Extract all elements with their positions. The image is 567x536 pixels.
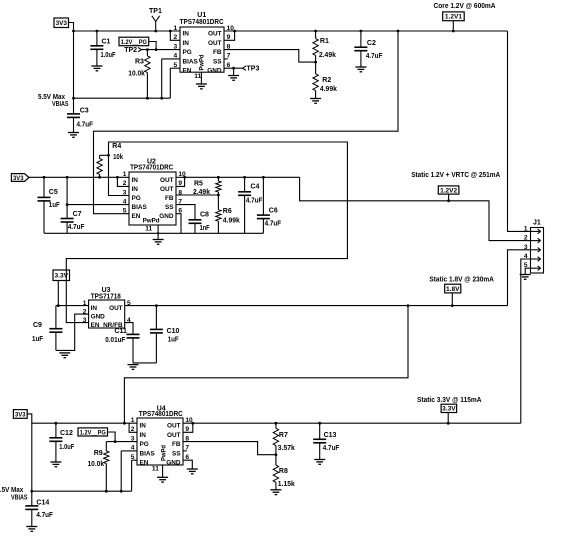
svg-text:SS: SS [172, 450, 181, 457]
svg-text:1: 1 [83, 300, 87, 307]
svg-text:4: 4 [174, 53, 178, 60]
svg-text:SS: SS [213, 58, 222, 65]
ground (U1 GND pin) [228, 76, 239, 81]
svg-text:EN: EN [132, 213, 141, 220]
svg-text:0.01uF: 0.01uF [105, 337, 126, 344]
capacitor C6 [257, 177, 282, 233]
U2 pad pin 11 [145, 225, 159, 240]
svg-text:11: 11 [145, 226, 152, 233]
resistor R5 [193, 177, 221, 196]
svg-text:3.3V: 3.3V [55, 273, 69, 280]
resistor R9 [88, 442, 110, 492]
svg-text:R9: R9 [94, 450, 103, 457]
ground (C14) [26, 527, 37, 532]
wire 3V3 row (U2 IN) [29, 176, 129, 179]
capacitor C3 [67, 98, 94, 132]
svg-text:IN: IN [132, 177, 139, 184]
wire 3V3 to U4 IN row [27, 414, 137, 425]
svg-text:C12: C12 [60, 430, 73, 437]
svg-text:C13: C13 [324, 432, 337, 439]
svg-text:C10: C10 [167, 328, 180, 335]
op-amp U1 TPS74801DRC body [180, 12, 224, 72]
J1 pin arrows and numbers [524, 225, 541, 270]
svg-text:TPS71718: TPS71718 [91, 293, 121, 300]
op-amp U3 TPS71718 body [89, 287, 125, 328]
wire U2 OUT to 1.2V2 row [300, 177, 531, 240]
svg-text:TPS74801DRC: TPS74801DRC [139, 411, 183, 418]
svg-text:1uF: 1uF [168, 337, 180, 344]
svg-text:BIAS: BIAS [140, 450, 156, 457]
wire U1 OUT row [224, 30, 508, 33]
svg-text:PwPd: PwPd [199, 54, 206, 70]
svg-text:R5: R5 [194, 180, 203, 187]
svg-text:2.49k: 2.49k [319, 52, 336, 59]
svg-text:C9: C9 [33, 322, 42, 329]
net label 3V3 (bottom) [13, 410, 27, 419]
svg-text:3: 3 [123, 189, 127, 196]
svg-text:1.0uF: 1.0uF [59, 444, 75, 451]
ground (C1) [91, 66, 102, 71]
svg-text:4.99k: 4.99k [320, 86, 337, 93]
ground (C13) [314, 460, 325, 465]
ground (U1 pad) [196, 84, 207, 89]
svg-text:GND: GND [166, 460, 181, 467]
wire U2 pin1-pin2 tie [117, 177, 129, 186]
svg-text:2: 2 [174, 34, 178, 41]
svg-text:3V3: 3V3 [56, 20, 68, 27]
test point TP3 [243, 66, 260, 73]
svg-text:3V3: 3V3 [15, 411, 26, 418]
op-amp U2 TPS74701DRC body [129, 158, 176, 225]
svg-text:1.2V__PG: 1.2V__PG [80, 429, 106, 436]
wire J1 pin3 from 1.8V [508, 250, 531, 306]
wire U3 NR/FB to C11 [125, 323, 133, 335]
svg-text:4: 4 [123, 198, 127, 205]
wire U4 EN [132, 460, 137, 491]
net label box 1.8V [445, 284, 461, 305]
svg-text:R3: R3 [135, 58, 144, 65]
test point TP2 [124, 47, 141, 54]
net label box 3.3V (U3) [53, 270, 70, 307]
capacitor C5 [38, 177, 61, 233]
wire VBIAS row (top) [72, 97, 170, 100]
wire U1 EN [170, 68, 180, 98]
svg-text:5: 5 [131, 454, 135, 461]
wire VBIAS vertical (bottom) [31, 423, 33, 491]
svg-text:OUT: OUT [109, 305, 123, 312]
net label box 1.2V1 [443, 12, 465, 31]
resistor R4 [97, 143, 123, 179]
svg-text:Static 3.3V @ 115mA: Static 3.3V @ 115mA [417, 397, 482, 404]
net label Static 1.8V [429, 277, 494, 284]
svg-text:C2: C2 [367, 40, 376, 47]
svg-text:10.0k: 10.0k [128, 70, 145, 77]
svg-text:C1: C1 [102, 39, 111, 46]
svg-text:C4: C4 [250, 184, 259, 191]
wire 1.8V branch to U4 [123, 306, 408, 425]
svg-text:IN: IN [140, 432, 147, 439]
capacitor C2 [354, 31, 383, 67]
wire U2 FB row [176, 194, 220, 197]
svg-text:2.49k: 2.49k [193, 189, 210, 196]
resistor R3 [128, 48, 150, 98]
ground (U4 GND pin) [187, 469, 198, 474]
svg-text:4.7uF: 4.7uF [366, 53, 383, 60]
svg-text:C8: C8 [200, 212, 209, 219]
wire U4 OUT row [183, 422, 521, 425]
wire U1 GND to TP3 [224, 67, 243, 76]
resistor R2 [313, 62, 337, 98]
svg-text:PwPd: PwPd [161, 445, 168, 461]
svg-text:11: 11 [194, 73, 201, 80]
ground (U4 pad) [157, 477, 168, 482]
U1 pad pin 11 [194, 72, 201, 84]
svg-text:3: 3 [174, 43, 178, 50]
svg-text:1: 1 [123, 171, 127, 178]
svg-text:C5: C5 [49, 189, 58, 196]
text 5.5V Max / VBIAS (top) [38, 94, 69, 108]
U4 pad pin 11 [152, 465, 163, 477]
svg-text:TPS74701DRC: TPS74701DRC [130, 165, 173, 172]
svg-text:R6: R6 [223, 208, 232, 215]
wire 1.2V__PG to PG row [149, 42, 158, 51]
resistor R8 [273, 455, 295, 490]
wire 1.2V__PG to U4 PG row [108, 432, 117, 443]
ground (U3) [59, 353, 70, 358]
wire 1.2V1 to U2 EN [94, 31, 399, 214]
svg-text:EN: EN [91, 322, 100, 329]
svg-text:5: 5 [123, 208, 127, 215]
wire U1 pin9 tie [224, 31, 235, 40]
svg-text:FB: FB [172, 441, 181, 448]
wire 3V3 to U1 IN row [69, 23, 181, 33]
svg-text:3.57k: 3.57k [278, 445, 295, 452]
wire U4 GND pin [183, 460, 192, 469]
svg-text:1: 1 [174, 25, 178, 32]
svg-text:SS: SS [165, 204, 174, 211]
svg-text:OUT: OUT [160, 186, 174, 193]
net label box 1.2V__PG (top) [119, 37, 149, 46]
svg-text:J1: J1 [533, 220, 541, 227]
svg-text:IN: IN [140, 423, 147, 430]
svg-text:FB: FB [165, 195, 174, 202]
net label box 1.2V2 [438, 186, 459, 201]
svg-text:C6: C6 [269, 208, 278, 215]
svg-text:C3: C3 [80, 108, 89, 115]
wire PG row (U1) [141, 49, 180, 51]
svg-text:OUT: OUT [208, 31, 222, 38]
svg-text:2: 2 [131, 426, 135, 433]
resistor R1 [313, 31, 336, 62]
svg-text:11: 11 [152, 466, 159, 473]
ground (R2) [310, 99, 321, 104]
svg-text:5: 5 [174, 62, 178, 69]
test point TP1 [149, 8, 162, 32]
wire VBIAS row (bottom) [30, 490, 131, 493]
svg-text:C11: C11 [115, 328, 128, 335]
svg-text:PG: PG [183, 49, 192, 56]
svg-text:TP3: TP3 [247, 66, 260, 73]
svg-text:4.99k: 4.99k [223, 217, 240, 224]
svg-text:OUT: OUT [167, 432, 181, 439]
svg-text:4.7uF: 4.7uF [265, 220, 282, 227]
capacitor C4 [238, 177, 263, 233]
svg-text:10k: 10k [113, 154, 123, 161]
svg-text:1uF: 1uF [49, 202, 61, 209]
svg-text:1.2V1: 1.2V1 [445, 14, 463, 21]
ground (C12) [50, 462, 61, 467]
wire J1 pin4 from 3.3V [521, 259, 531, 423]
net label Core 1.2V [434, 3, 496, 10]
net label 3V3 (U2) [11, 174, 29, 183]
svg-text:OUT: OUT [160, 177, 174, 184]
ground (J1 pin5) [520, 275, 531, 280]
ground (R8) [270, 490, 281, 495]
wire U2 BIAS [67, 204, 129, 206]
ground (C11/C10) [128, 365, 139, 370]
wire U2 OUT row [176, 176, 300, 179]
wire U2 PG net to U3 EN [66, 142, 347, 323]
svg-text:GND: GND [159, 213, 174, 220]
svg-text:GND: GND [91, 314, 106, 321]
svg-text:TP2: TP2 [124, 47, 137, 54]
svg-text:R4: R4 [112, 143, 121, 150]
wire U2 ground rail [44, 232, 263, 234]
U1 pin names and numbers [174, 25, 235, 75]
U4 pin names and numbers [131, 417, 193, 467]
svg-text:Static 1.8V @ 230mA: Static 1.8V @ 230mA [429, 277, 494, 284]
svg-text:EN: EN [140, 460, 149, 467]
wire U4 pin9 tie [183, 423, 193, 432]
svg-text:4: 4 [131, 445, 135, 452]
svg-text:R2: R2 [322, 77, 331, 84]
wire U4 BIAS [121, 451, 137, 491]
wire U1 FB jog [224, 50, 317, 64]
wire C10/C11 ground row [133, 362, 156, 364]
svg-text:IN: IN [132, 186, 139, 193]
svg-text:5.5V Max: 5.5V Max [0, 487, 23, 494]
net label 3V3 (top) [54, 18, 69, 28]
svg-text:C7: C7 [73, 211, 82, 218]
svg-text:1.2V2: 1.2V2 [440, 187, 458, 194]
wire U3 GND [56, 314, 89, 350]
svg-text:IN: IN [183, 40, 190, 47]
wire U1 pin1-pin2 tie [169, 30, 180, 41]
capacitor C12 [49, 423, 74, 462]
capacitor C13 [313, 423, 340, 459]
ground (U2 pad) [153, 240, 164, 245]
wire U1 BIAS [162, 59, 180, 98]
wire J1 pin5 to ground [525, 268, 530, 274]
svg-text:1.8V: 1.8V [446, 286, 460, 293]
wire VBIAS vertical [73, 31, 75, 98]
U3 pin names and numbers [83, 300, 131, 329]
svg-text:2: 2 [123, 180, 127, 187]
svg-text:R7: R7 [279, 432, 288, 439]
op-amp U4 TPS74801DRC body [137, 405, 183, 465]
ground (C3) [68, 133, 79, 138]
capacitor C10 [150, 304, 180, 363]
resistor R6 [216, 195, 240, 233]
svg-text:Core 1.2V @ 600mA: Core 1.2V @ 600mA [434, 3, 496, 10]
wire U2 SS to C8 [176, 205, 195, 220]
capacitor C9 [32, 306, 62, 351]
svg-text:TPS74801DRC: TPS74801DRC [180, 19, 224, 26]
capacitor C7 [61, 177, 85, 233]
svg-text:4.7uF: 4.7uF [36, 512, 53, 519]
svg-text:R1: R1 [320, 38, 329, 45]
svg-text:PG: PG [132, 195, 141, 202]
text 5.5V Max / VBIAS (bottom) [0, 487, 28, 501]
wire U4 pin1-pin2 tie [129, 423, 137, 432]
wire U1 SS stub [224, 58, 228, 60]
net label box 1.2V__PG (bottom) [78, 428, 108, 436]
svg-text:OUT: OUT [208, 40, 222, 47]
U2 pin names and numbers [123, 171, 186, 224]
svg-text:C14: C14 [36, 500, 49, 507]
wire U2 pin9 tie [176, 177, 185, 186]
svg-text:4.7uF: 4.7uF [68, 224, 85, 231]
svg-text:1.15k: 1.15k [278, 481, 295, 488]
net label box 3.3V (bottom) [441, 404, 457, 423]
svg-text:1uF: 1uF [32, 336, 44, 343]
capacitor C8 [189, 212, 211, 234]
svg-text:1.2V__PG: 1.2V__PG [121, 39, 147, 46]
svg-text:EN: EN [183, 68, 192, 75]
svg-text:TP1: TP1 [149, 8, 162, 15]
wire U4 SS stub [183, 450, 187, 452]
svg-text:BIAS: BIAS [183, 58, 199, 65]
capacitor C1 [90, 30, 116, 66]
svg-text:5.5V Max: 5.5V Max [38, 94, 65, 101]
svg-text:Static 1.2V + VRTC @ 251mA: Static 1.2V + VRTC @ 251mA [411, 172, 500, 179]
svg-text:3: 3 [83, 317, 87, 324]
wire J1 pin1 from 1.2V1 [508, 31, 531, 231]
svg-text:BIAS: BIAS [132, 204, 148, 211]
connector J1 body [531, 220, 544, 274]
svg-text:10.0k: 10.0k [88, 461, 105, 468]
svg-text:3V3: 3V3 [13, 175, 24, 182]
wire U4 PG row [106, 441, 137, 443]
svg-text:FB: FB [213, 49, 222, 56]
svg-text:PwPd: PwPd [143, 217, 160, 224]
net label Static 3.3V [417, 397, 482, 404]
svg-text:R8: R8 [279, 468, 288, 475]
svg-text:2: 2 [524, 235, 528, 242]
resistor R7 [273, 423, 295, 455]
wire 1.8V row [125, 304, 508, 307]
svg-text:3: 3 [131, 435, 135, 442]
svg-text:1nF: 1nF [200, 225, 211, 232]
wire U2 GND to rail [176, 214, 181, 234]
wire U4 FB jog [183, 442, 277, 457]
svg-text:VBIAS: VBIAS [11, 495, 28, 502]
svg-text:1.0uF: 1.0uF [101, 52, 117, 59]
svg-text:4.7uF: 4.7uF [246, 198, 263, 205]
wire U3 IN row [56, 305, 89, 307]
svg-text:GND: GND [207, 68, 222, 75]
svg-text:1: 1 [131, 417, 135, 424]
capacitor C14 [25, 491, 53, 526]
svg-text:IN: IN [91, 305, 98, 312]
ground (C2) [355, 67, 366, 72]
svg-text:2: 2 [83, 308, 87, 315]
capacitor C11 [105, 328, 139, 363]
svg-text:4.7uF: 4.7uF [323, 445, 340, 452]
svg-text:PG: PG [140, 441, 149, 448]
net label Static 1.2V + VRTC [411, 172, 500, 179]
svg-text:VBIAS: VBIAS [52, 101, 69, 108]
svg-text:OUT: OUT [167, 423, 181, 430]
svg-text:IN: IN [183, 31, 190, 38]
svg-text:3.3V: 3.3V [442, 406, 456, 413]
svg-text:4.7uF: 4.7uF [77, 121, 94, 128]
